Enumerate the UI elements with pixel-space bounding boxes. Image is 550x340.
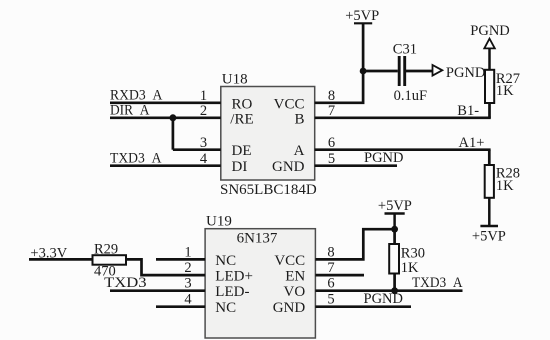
capacitor C31 (393, 42, 427, 105)
U19 pin 4 NC (184, 292, 236, 317)
svg-text:GND: GND (273, 300, 306, 316)
svg-text:2: 2 (184, 260, 191, 276)
U19 pin 7 EN (285, 260, 334, 285)
svg-text:4: 4 (184, 292, 192, 308)
svg-text:3: 3 (184, 276, 191, 292)
svg-text:PGND: PGND (470, 23, 509, 39)
wire to U18 pin 3 (173, 148, 221, 151)
resistor R28 (485, 165, 520, 198)
wire net PGND U19 pin 5 (315, 305, 411, 308)
svg-text:A1+: A1+ (459, 135, 485, 151)
svg-text:U19: U19 (206, 213, 232, 229)
U18 pin 2 /RE (200, 103, 254, 127)
U19 pin 1 NC (184, 244, 236, 269)
wire net TXD3_A U19 pin 6 (315, 289, 462, 292)
svg-text:1K: 1K (496, 178, 514, 194)
svg-text:U18: U18 (222, 72, 248, 88)
U18 pin 5 GND (272, 151, 335, 175)
wire net TXD3 to U19 pin 3 (110, 289, 205, 292)
U18 pin 1 RO (200, 88, 253, 112)
svg-text:RO: RO (232, 96, 253, 112)
U19 pin 8 VCC (274, 244, 334, 269)
power port PGND (top, up arrow) (470, 23, 509, 70)
wire net TXD3_A to U18 pin 4 (110, 164, 221, 167)
junction DIR_A (169, 114, 176, 121)
svg-text:6: 6 (327, 276, 334, 292)
svg-text:/RE: /RE (230, 111, 253, 127)
U19 pin 6 VO (284, 276, 335, 301)
svg-text:LED-: LED- (215, 284, 249, 300)
wire +3.3V to R29 (29, 258, 93, 261)
svg-text:1K: 1K (401, 260, 419, 276)
junction +5VP / R30 / pin8 (391, 226, 398, 233)
svg-text:TXD3 A: TXD3 A (412, 275, 463, 291)
wire A1+ to R28 (488, 150, 491, 165)
U18 pin 8 VCC (274, 88, 335, 112)
svg-text:6N137: 6N137 (237, 230, 278, 246)
svg-text:DI: DI (232, 159, 248, 175)
svg-text:B: B (294, 111, 304, 127)
U18 pin 7 B (294, 103, 335, 127)
U18 pin 4 DI (200, 151, 247, 175)
svg-text:C31: C31 (393, 42, 417, 58)
U18 pin 6 A (294, 135, 335, 159)
svg-text:1: 1 (184, 244, 191, 260)
junction +5VP / C31 / pin8 (360, 68, 367, 75)
svg-text:NC: NC (215, 300, 236, 316)
svg-text:PGND: PGND (446, 65, 485, 81)
U19 pin 5 GND (273, 292, 335, 317)
svg-text:7: 7 (327, 260, 334, 276)
svg-text:EN: EN (285, 269, 305, 285)
svg-text:LED+: LED+ (215, 269, 253, 285)
wire U19 pin 8 to +5VP branch (315, 229, 394, 259)
svg-text:1K: 1K (496, 83, 514, 99)
wire net A1+ U18 pin 6 (315, 148, 491, 151)
wire junction down to pin 3 row (172, 118, 175, 150)
svg-text:R29: R29 (94, 241, 118, 257)
IC U18 body (221, 87, 315, 181)
U18 pin 3 DE (200, 135, 252, 159)
wire net B1- U18 pin 7 (315, 116, 491, 119)
wire R30 to VO net (393, 274, 396, 291)
resistor R27 (485, 70, 520, 103)
wire net DIR_A to U18 pin 2 (110, 116, 221, 119)
svg-text:PGND: PGND (364, 150, 403, 166)
wire U18 pin 8 to +5VP branch (315, 71, 363, 103)
wire stub U19 pin 1 (156, 258, 205, 261)
svg-text:NC: NC (215, 253, 236, 269)
power +5VP (above R30) (378, 198, 412, 229)
svg-text:TXD3 A: TXD3 A (110, 150, 162, 166)
wire R29 to U19 pin 2 (126, 259, 205, 275)
svg-text:PGND: PGND (364, 291, 403, 307)
svg-text:SN65LBC184D: SN65LBC184D (220, 182, 317, 198)
svg-text:8: 8 (327, 244, 334, 260)
U19 pin 2 LED+ (184, 260, 253, 285)
svg-text:B1-: B1- (457, 103, 479, 119)
wire junction to C31 (363, 70, 398, 73)
svg-text:VO: VO (284, 284, 306, 300)
IC U19 body (205, 229, 315, 338)
wire stub U19 pin 7 EN (315, 274, 364, 277)
wire net PGND U18 pin 5 (315, 164, 397, 167)
junction R30 / VO (391, 287, 398, 294)
svg-text:+5VP: +5VP (472, 229, 506, 245)
svg-text:+5VP: +5VP (378, 198, 412, 214)
power +5VP (top) (345, 8, 379, 71)
svg-text:GND: GND (272, 159, 305, 175)
svg-text:0.1uF: 0.1uF (394, 88, 427, 104)
svg-text:RXD3 A: RXD3 A (110, 88, 163, 104)
resistor R30 (389, 229, 425, 276)
wire stub U19 pin 4 (156, 305, 205, 308)
wire R27 to net B1- (488, 103, 491, 118)
svg-text:DE: DE (232, 143, 252, 159)
wire net RXD3_A to U18 pin 1 (110, 101, 221, 104)
svg-text:A: A (294, 143, 305, 159)
svg-text:TXD3: TXD3 (104, 275, 147, 291)
svg-text:VCC: VCC (274, 96, 305, 112)
power +5VP (below R28) (472, 198, 506, 245)
svg-text:+5VP: +5VP (345, 8, 379, 24)
svg-text:VCC: VCC (274, 253, 305, 269)
svg-text:5: 5 (327, 292, 334, 308)
U19 pin 3 LED- (184, 276, 249, 301)
resistor R29 (93, 241, 127, 279)
power port PGND (right arrow) (433, 65, 486, 81)
wire C31 to PGND port (406, 70, 432, 73)
svg-text:DIR A: DIR A (110, 103, 150, 119)
